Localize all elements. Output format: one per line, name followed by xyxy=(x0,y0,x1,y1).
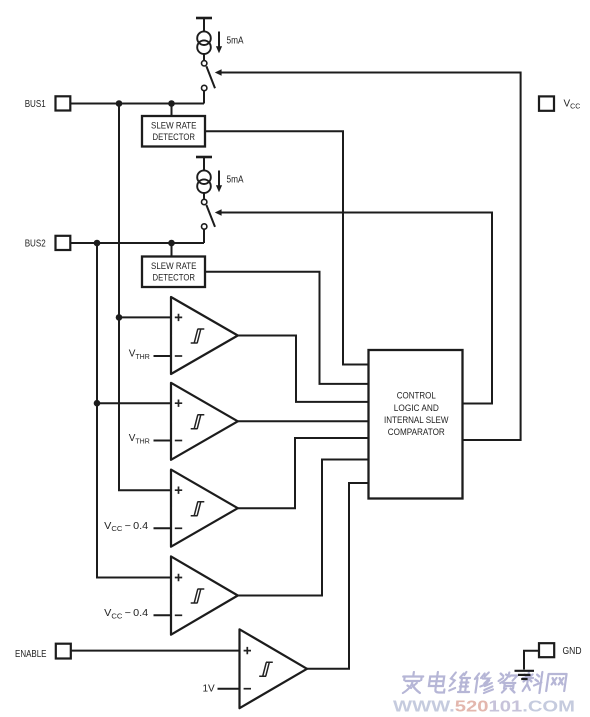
junction xyxy=(116,314,123,321)
wire xyxy=(171,104,173,117)
svg-text:VTHR: VTHR xyxy=(129,349,150,361)
wire (U2 output to control logic) xyxy=(238,420,369,422)
wire xyxy=(203,230,205,244)
svg-text:BUS2: BUS2 xyxy=(25,238,46,249)
wire (U5 output to control logic) xyxy=(307,483,369,669)
junction xyxy=(116,100,123,107)
svg-text:VCC − 0.4: VCC − 0.4 xyxy=(104,608,148,620)
node VCC-0.4 (U3 - input) xyxy=(104,521,171,533)
wire xyxy=(203,157,205,171)
watermark: site name (decorative) xyxy=(401,672,567,693)
wire (BUS1 net) xyxy=(70,103,204,105)
svg-text:CONTROL: CONTROL xyxy=(397,390,436,400)
wire (switch S2 control line from control logic) xyxy=(215,209,492,403)
comparator U1 (BUS1 VTHR) xyxy=(171,297,238,374)
pin BUS1 xyxy=(25,96,71,110)
slew rate detector 2 xyxy=(142,257,205,288)
svg-text:COMPARATOR: COMPARATOR xyxy=(388,427,445,437)
value label 5mA with arrow (I2) xyxy=(216,171,244,193)
switch S2 xyxy=(202,199,216,229)
svg-text:SLEW RATE: SLEW RATE xyxy=(151,261,197,271)
wire (BUS1 sense line down to comparators) xyxy=(119,104,171,491)
svg-text:5mA: 5mA xyxy=(227,175,244,186)
current source I2 (5mA) xyxy=(197,170,211,193)
svg-text:WWW.520101.COM: WWW.520101.COM xyxy=(393,699,575,716)
value label 5mA with arrow (I1) xyxy=(216,32,244,54)
svg-text:LOGIC AND: LOGIC AND xyxy=(394,403,439,413)
svg-text:DETECTOR: DETECTOR xyxy=(153,132,196,142)
svg-text:INTERNAL SLEW: INTERNAL SLEW xyxy=(384,415,449,425)
wire (ENABLE net) xyxy=(71,650,240,652)
pin BUS2 xyxy=(25,236,71,250)
power rail T-bar (current source 2 supply) xyxy=(196,156,212,159)
wire (U1 output to control logic) xyxy=(238,336,369,402)
comparator U3 (BUS1 VCC-0.4) xyxy=(171,470,238,547)
svg-text:ENABLE: ENABLE xyxy=(15,649,47,660)
wire xyxy=(171,243,173,257)
node 1V (U5 - input) xyxy=(203,684,240,695)
svg-text:VCC − 0.4: VCC − 0.4 xyxy=(104,521,148,533)
svg-text:DETECTOR: DETECTOR xyxy=(153,273,196,283)
wire (GND net) xyxy=(524,651,539,670)
wire (U1 + input) xyxy=(119,316,171,318)
wire (BUS2 sense line down to comparators) xyxy=(97,243,171,578)
junction xyxy=(94,400,101,407)
slew rate detector 1 xyxy=(142,116,205,147)
node VTHR (U2 - input) xyxy=(129,433,171,445)
junction xyxy=(94,240,101,247)
comparator U2 (BUS2 VTHR) xyxy=(171,383,238,460)
wire (U2 + input) xyxy=(97,402,171,404)
svg-text:SLEW RATE: SLEW RATE xyxy=(151,121,197,131)
switch S1 xyxy=(202,61,216,91)
svg-text:VCC: VCC xyxy=(564,99,581,111)
svg-text:1V: 1V xyxy=(203,684,216,695)
pin VCC xyxy=(539,96,580,110)
wire (switch S1 control line from control logic) xyxy=(215,69,521,440)
svg-text:GND: GND xyxy=(563,646,582,657)
pin ENABLE xyxy=(15,644,71,660)
wire (U3 output to control logic) xyxy=(238,438,369,508)
wire xyxy=(203,18,205,32)
power rail T-bar (current source 1 supply) xyxy=(196,17,212,20)
node VTHR (U1 - input) xyxy=(129,349,171,361)
control logic block xyxy=(369,350,463,499)
wire xyxy=(203,54,205,60)
node VCC-0.4 (U4 - input) xyxy=(104,608,171,620)
wire xyxy=(203,193,205,199)
comparator U5 (ENABLE) xyxy=(240,629,308,708)
junction xyxy=(168,240,175,247)
pin GND xyxy=(539,643,582,657)
junction xyxy=(168,100,175,107)
wire xyxy=(203,91,205,104)
ground xyxy=(515,671,535,679)
svg-text:5mA: 5mA xyxy=(227,36,244,47)
wire (U4 output to control logic) xyxy=(238,460,369,596)
svg-text:VTHR: VTHR xyxy=(129,433,150,445)
wire (BUS2 net) xyxy=(70,242,204,244)
current source I1 (5mA) xyxy=(197,31,211,54)
wire (detector 2 output to control logic) xyxy=(205,272,369,384)
wire (detector 1 output to control logic) xyxy=(205,131,369,364)
svg-text:BUS1: BUS1 xyxy=(25,99,46,110)
comparator U4 (BUS2 VCC-0.4) xyxy=(171,556,238,634)
